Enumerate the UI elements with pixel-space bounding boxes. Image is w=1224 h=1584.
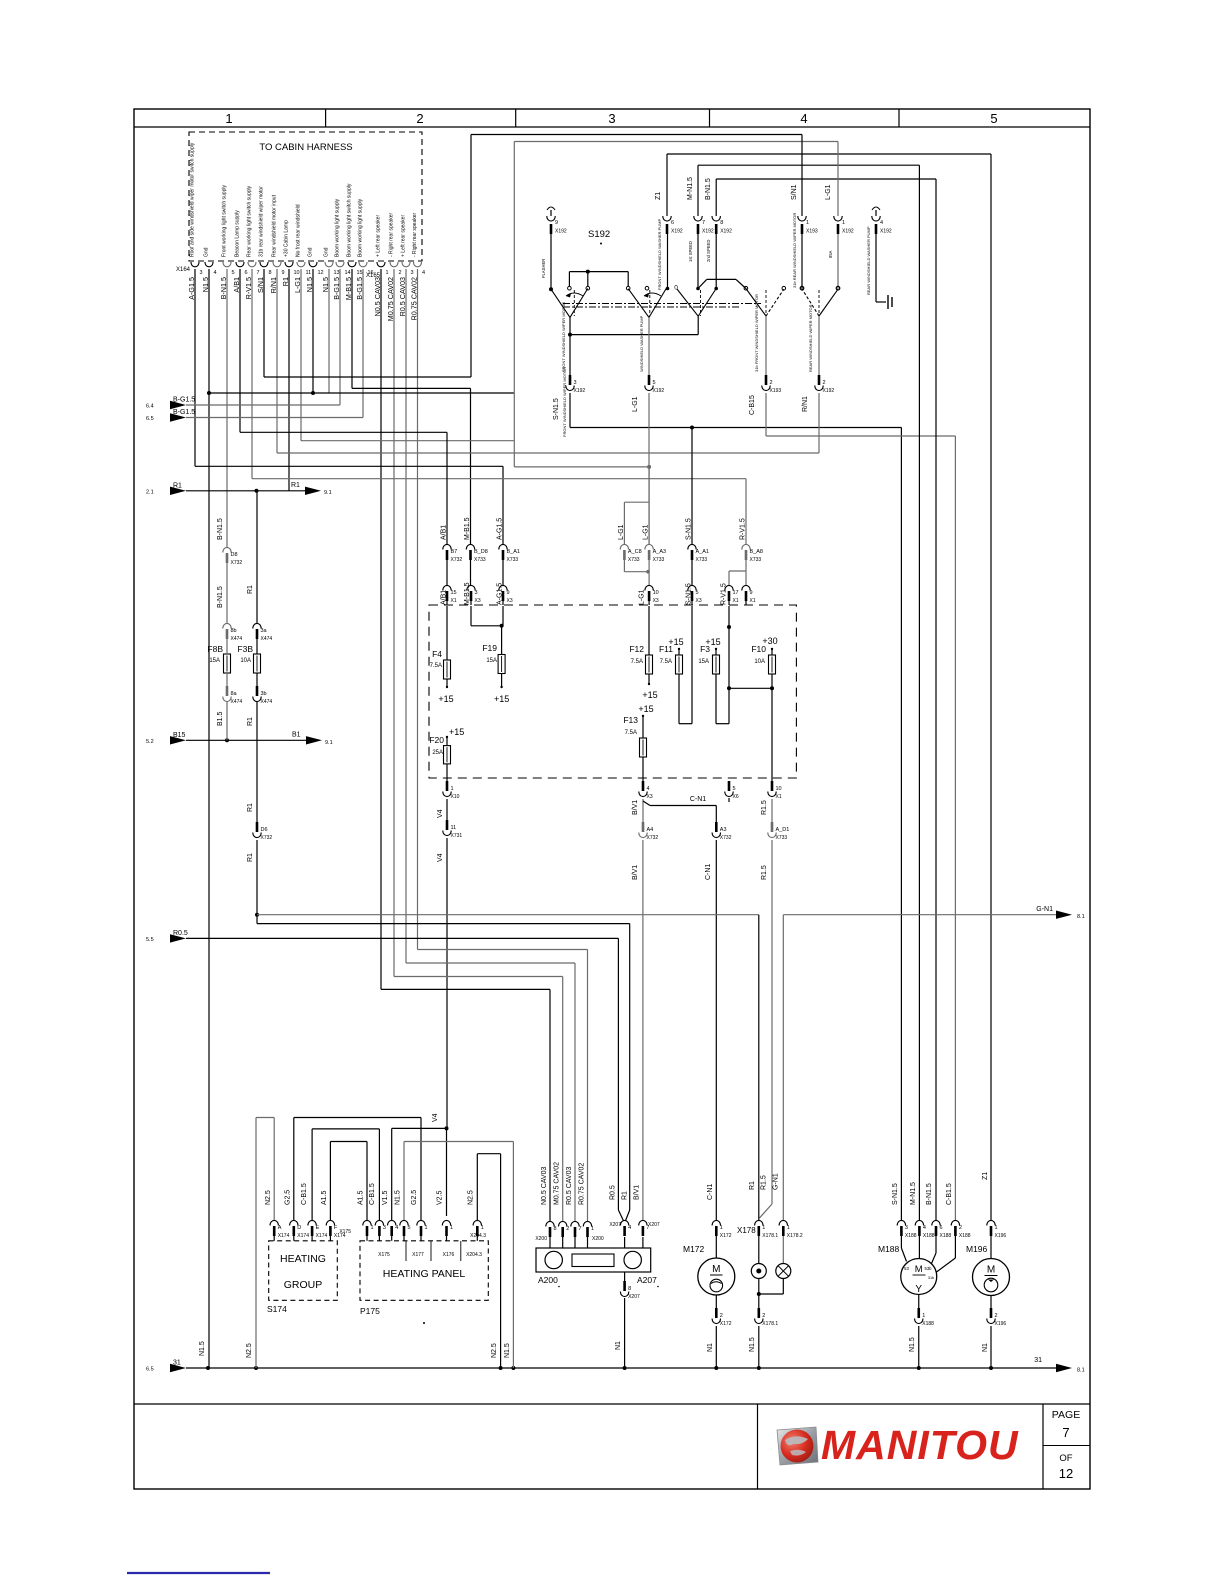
svg-text:X200: X200 bbox=[592, 1236, 604, 1242]
svg-text:X175: X175 bbox=[339, 1229, 351, 1235]
svg-text:1: 1 bbox=[450, 1225, 453, 1231]
svg-text:G-N1: G-N1 bbox=[1036, 906, 1053, 913]
svg-text:31b REAR WINDSHIELD WIPER MOTO: 31b REAR WINDSHIELD WIPER MOTOR bbox=[792, 213, 797, 288]
svg-text:M: M bbox=[987, 1265, 995, 1276]
svg-text:FLASHER: FLASHER bbox=[541, 259, 546, 278]
svg-text:B/V1: B/V1 bbox=[632, 865, 639, 880]
svg-text:31b: 31b bbox=[928, 1276, 934, 1280]
svg-text:5: 5 bbox=[696, 590, 699, 596]
svg-text:1: 1 bbox=[371, 1225, 374, 1231]
svg-text:B1: B1 bbox=[292, 732, 301, 739]
svg-text:X174: X174 bbox=[316, 1233, 328, 1239]
svg-text:X174: X174 bbox=[297, 1233, 309, 1239]
svg-text:2: 2 bbox=[959, 1225, 962, 1231]
svg-text:X192: X192 bbox=[842, 229, 854, 235]
svg-text:R0.5 CAV03: R0.5 CAV03 bbox=[566, 1167, 573, 1205]
svg-text:10A: 10A bbox=[240, 658, 251, 664]
svg-text:+15: +15 bbox=[642, 690, 657, 700]
svg-text:C-N1: C-N1 bbox=[707, 1184, 714, 1200]
svg-text:N1: N1 bbox=[615, 1341, 622, 1350]
svg-text:N1: N1 bbox=[707, 1343, 714, 1352]
svg-text:V4: V4 bbox=[437, 809, 444, 818]
svg-text:7: 7 bbox=[1062, 1425, 1069, 1440]
svg-text:A1.5: A1.5 bbox=[358, 1190, 365, 1205]
svg-text:4: 4 bbox=[800, 111, 807, 126]
svg-text:+ Left rear speaker: + Left rear speaker bbox=[401, 215, 407, 257]
svg-text:B-G1.5: B-G1.5 bbox=[173, 397, 195, 404]
svg-text:3b: 3b bbox=[261, 691, 267, 697]
svg-text:14: 14 bbox=[345, 270, 351, 276]
svg-text:A/B1: A/B1 bbox=[441, 525, 448, 540]
svg-text:1: 1 bbox=[225, 111, 232, 126]
svg-text:L-G1: L-G1 bbox=[639, 589, 646, 605]
svg-text:3: 3 bbox=[475, 590, 478, 596]
svg-text:X172: X172 bbox=[720, 1321, 732, 1327]
svg-text:8a: 8a bbox=[231, 691, 238, 697]
svg-text:Roof and side windshield wiper: Roof and side windshield wiper motor swi… bbox=[190, 142, 196, 257]
svg-text:A_D1: A_D1 bbox=[776, 827, 790, 833]
svg-text:15A: 15A bbox=[209, 658, 220, 664]
svg-text:N2.5: N2.5 bbox=[468, 1190, 475, 1205]
svg-text:2: 2 bbox=[995, 1313, 998, 1319]
svg-text:4: 4 bbox=[422, 270, 425, 276]
svg-text:X474: X474 bbox=[261, 699, 273, 705]
svg-text:3: 3 bbox=[200, 270, 203, 276]
svg-text:9: 9 bbox=[282, 270, 285, 276]
svg-text:B-G1.5: B-G1.5 bbox=[173, 409, 195, 416]
svg-text:Gnd: Gnd bbox=[324, 247, 330, 257]
svg-text:F12: F12 bbox=[629, 644, 644, 654]
svg-text:13: 13 bbox=[334, 270, 340, 276]
svg-text:R1: R1 bbox=[247, 853, 254, 862]
svg-text:B/V1: B/V1 bbox=[634, 1185, 641, 1200]
svg-text:S-N1.5: S-N1.5 bbox=[553, 398, 560, 420]
svg-text:R1: R1 bbox=[291, 482, 300, 489]
svg-text:R1: R1 bbox=[622, 1191, 629, 1200]
svg-text:B-N1.5: B-N1.5 bbox=[217, 586, 224, 608]
svg-text:X177: X177 bbox=[412, 1252, 424, 1258]
svg-text:X1: X1 bbox=[733, 598, 739, 604]
svg-text:X193: X193 bbox=[770, 388, 782, 394]
svg-text:Beacon Lamp supply: Beacon Lamp supply bbox=[235, 210, 241, 257]
svg-text:A_C8: A_C8 bbox=[628, 549, 642, 555]
svg-text:N1.5: N1.5 bbox=[749, 1337, 756, 1352]
svg-text:N2.5: N2.5 bbox=[491, 1343, 498, 1358]
svg-text:X172: X172 bbox=[720, 1233, 732, 1239]
svg-text:B_A8: B_A8 bbox=[750, 549, 763, 555]
svg-text:8.1: 8.1 bbox=[1077, 1368, 1085, 1374]
svg-text:X174: X174 bbox=[278, 1233, 290, 1239]
svg-text:R0.75 CAV02: R0.75 CAV02 bbox=[579, 1163, 586, 1205]
svg-text:X3: X3 bbox=[696, 598, 702, 604]
svg-text:Rear windshield motor input: Rear windshield motor input bbox=[272, 194, 278, 257]
svg-text:X733: X733 bbox=[474, 557, 486, 563]
svg-text:5: 5 bbox=[733, 786, 736, 792]
svg-text:R-V1.5: R-V1.5 bbox=[740, 518, 747, 540]
svg-text:M-N1.5: M-N1.5 bbox=[910, 1182, 917, 1205]
svg-text:A3: A3 bbox=[720, 827, 727, 833]
svg-text:X188: X188 bbox=[922, 1321, 934, 1327]
svg-text:X192: X192 bbox=[671, 229, 683, 235]
svg-text:X10: X10 bbox=[451, 794, 460, 800]
svg-text:N1.5: N1.5 bbox=[909, 1337, 916, 1352]
svg-text:R1.5: R1.5 bbox=[761, 800, 768, 815]
svg-text:6: 6 bbox=[671, 220, 674, 226]
svg-text:X178.1: X178.1 bbox=[762, 1233, 778, 1239]
svg-text:R1: R1 bbox=[749, 1181, 756, 1190]
svg-text:X3: X3 bbox=[507, 598, 513, 604]
svg-text:3: 3 bbox=[608, 111, 615, 126]
svg-text:R1: R1 bbox=[247, 803, 254, 812]
svg-text:TO CABIN HARNESS: TO CABIN HARNESS bbox=[259, 142, 352, 153]
svg-text:F10: F10 bbox=[751, 644, 766, 654]
svg-text:R1: R1 bbox=[247, 717, 254, 726]
svg-text:1: 1 bbox=[425, 1225, 428, 1231]
svg-text:X188: X188 bbox=[923, 1233, 935, 1239]
svg-text:A4: A4 bbox=[647, 827, 654, 833]
svg-text:X732: X732 bbox=[451, 557, 463, 563]
svg-text:X192: X192 bbox=[653, 388, 665, 394]
svg-text:B_A1: B_A1 bbox=[507, 549, 520, 555]
svg-text:31b rear windshield wiper moto: 31b rear windshield wiper motor bbox=[259, 186, 265, 257]
svg-text:REAR WINDSHIELD WIPER MOTOR: REAR WINDSHIELD WIPER MOTOR bbox=[808, 304, 813, 372]
svg-text:X164: X164 bbox=[176, 267, 191, 273]
svg-text:N1.5: N1.5 bbox=[395, 1190, 402, 1205]
svg-text:D6: D6 bbox=[261, 827, 268, 833]
svg-text:X178: X178 bbox=[737, 1226, 756, 1235]
svg-text:N2.5: N2.5 bbox=[246, 1343, 253, 1358]
svg-text:12: 12 bbox=[318, 270, 324, 276]
svg-text:X6: X6 bbox=[733, 794, 739, 800]
svg-text:X192: X192 bbox=[555, 229, 567, 235]
svg-text:X192: X192 bbox=[880, 229, 892, 235]
svg-text:5.2: 5.2 bbox=[146, 739, 154, 745]
svg-text:X175: X175 bbox=[378, 1252, 390, 1258]
svg-text:L-G1: L-G1 bbox=[632, 396, 639, 412]
svg-text:M172: M172 bbox=[683, 1244, 705, 1254]
svg-text:R0.5: R0.5 bbox=[610, 1185, 617, 1200]
svg-text:1: 1 bbox=[806, 220, 809, 226]
svg-text:1: 1 bbox=[787, 1225, 790, 1231]
svg-text:L-G1: L-G1 bbox=[618, 524, 625, 540]
svg-text:F3: F3 bbox=[700, 644, 710, 654]
svg-text:4: 4 bbox=[395, 1225, 398, 1231]
svg-text:5: 5 bbox=[653, 380, 656, 386]
svg-text:8: 8 bbox=[720, 220, 723, 226]
svg-text:N1: N1 bbox=[982, 1343, 989, 1352]
svg-text:N2.5: N2.5 bbox=[265, 1190, 272, 1205]
svg-text:FRONT WINDSHIELD WIPER MOTOR: FRONT WINDSHIELD WIPER MOTOR bbox=[561, 302, 566, 372]
svg-text:53b: 53b bbox=[925, 1266, 933, 1271]
svg-text:B1.5: B1.5 bbox=[217, 711, 224, 726]
svg-text:9: 9 bbox=[507, 590, 510, 596]
svg-text:M: M bbox=[915, 1264, 923, 1275]
svg-text:X207: X207 bbox=[609, 1222, 621, 1228]
svg-text:S192: S192 bbox=[588, 229, 610, 240]
svg-text:G2.5: G2.5 bbox=[411, 1190, 418, 1205]
svg-text:15: 15 bbox=[357, 270, 363, 276]
svg-text:X732: X732 bbox=[261, 835, 273, 841]
svg-text:8: 8 bbox=[554, 1226, 557, 1232]
svg-text:10: 10 bbox=[776, 786, 782, 792]
svg-text:+15: +15 bbox=[449, 727, 464, 737]
svg-text:M188: M188 bbox=[878, 1244, 900, 1254]
svg-text:X176: X176 bbox=[443, 1252, 455, 1258]
svg-text:1: 1 bbox=[995, 1225, 998, 1231]
svg-text:9.1: 9.1 bbox=[324, 490, 332, 496]
svg-text:8.1: 8.1 bbox=[1077, 914, 1085, 920]
svg-text:V4: V4 bbox=[432, 1113, 439, 1122]
svg-text:12: 12 bbox=[1059, 1466, 1073, 1481]
svg-text:X733: X733 bbox=[696, 557, 708, 563]
svg-text:M-B1.5: M-B1.5 bbox=[464, 517, 471, 540]
svg-text:5.5: 5.5 bbox=[146, 937, 154, 943]
svg-text:4: 4 bbox=[628, 1225, 631, 1231]
svg-text:15: 15 bbox=[451, 590, 457, 596]
svg-text:9.1: 9.1 bbox=[325, 740, 333, 746]
svg-text:Rear working light switch supp: Rear working light switch supply bbox=[247, 185, 253, 257]
svg-text:X193: X193 bbox=[806, 229, 818, 235]
svg-text:2: 2 bbox=[566, 1226, 569, 1232]
svg-text:+15: +15 bbox=[438, 694, 453, 704]
svg-text:2: 2 bbox=[720, 1313, 723, 1319]
svg-text:6.5: 6.5 bbox=[146, 416, 154, 422]
svg-text:11: 11 bbox=[451, 825, 457, 831]
svg-text:WINDSHIELD WASHER PUMP: WINDSHIELD WASHER PUMP bbox=[639, 315, 644, 372]
svg-text:Boom working light switch supp: Boom working light switch supply bbox=[347, 183, 353, 257]
svg-text:G-N1: G-N1 bbox=[773, 1173, 780, 1190]
svg-text:X3: X3 bbox=[653, 598, 659, 604]
svg-text:F11: F11 bbox=[659, 644, 673, 654]
svg-text:31: 31 bbox=[173, 1360, 181, 1367]
svg-text:7.5A: 7.5A bbox=[625, 730, 637, 736]
svg-text:X207: X207 bbox=[648, 1222, 660, 1228]
svg-text:11: 11 bbox=[306, 270, 312, 276]
svg-text:4: 4 bbox=[647, 786, 650, 792]
svg-text:X188: X188 bbox=[959, 1233, 971, 1239]
svg-text:X178.2: X178.2 bbox=[787, 1233, 803, 1239]
svg-text:7: 7 bbox=[257, 270, 260, 276]
svg-text:A-G1.5: A-G1.5 bbox=[497, 518, 504, 540]
svg-text:10A: 10A bbox=[754, 659, 765, 665]
svg-text:F3B: F3B bbox=[237, 644, 253, 654]
svg-text:S-N1.5: S-N1.5 bbox=[892, 1183, 899, 1205]
svg-text:A200: A200 bbox=[538, 1275, 558, 1285]
svg-text:X188: X188 bbox=[940, 1233, 952, 1239]
svg-text:7.5A: 7.5A bbox=[631, 659, 643, 665]
svg-text:X733: X733 bbox=[653, 557, 665, 563]
svg-text:3: 3 bbox=[574, 380, 577, 386]
svg-text:2.1: 2.1 bbox=[146, 489, 154, 495]
svg-text:M0.75 CAV02: M0.75 CAV02 bbox=[554, 1162, 561, 1205]
svg-text:8: 8 bbox=[269, 270, 272, 276]
svg-text:6.4: 6.4 bbox=[146, 404, 154, 410]
svg-text:Front working light switch sup: Front working light switch supply bbox=[222, 185, 228, 257]
svg-text:S-N1.5: S-N1.5 bbox=[686, 518, 693, 540]
svg-text:1: 1 bbox=[451, 786, 454, 792]
svg-text:9: 9 bbox=[750, 590, 753, 596]
svg-text:C-B1.5: C-B1.5 bbox=[946, 1183, 953, 1205]
svg-text:9: 9 bbox=[555, 220, 558, 226]
svg-text:2: 2 bbox=[823, 380, 826, 386]
svg-text:X474: X474 bbox=[231, 636, 243, 642]
svg-text:+ Left rear speaker: + Left rear speaker bbox=[376, 215, 382, 257]
svg-text:R1.5: R1.5 bbox=[761, 865, 768, 880]
svg-text:X196: X196 bbox=[995, 1321, 1007, 1327]
svg-text:M-N1.5: M-N1.5 bbox=[687, 177, 694, 200]
svg-text:8: 8 bbox=[628, 1286, 631, 1292]
svg-text:C-B15: C-B15 bbox=[749, 395, 756, 415]
svg-text:8b: 8b bbox=[231, 628, 237, 634]
svg-text:7: 7 bbox=[702, 220, 705, 226]
svg-text:Boom working light supply: Boom working light supply bbox=[335, 198, 341, 257]
svg-text:F13: F13 bbox=[623, 715, 638, 725]
svg-text:85A: 85A bbox=[828, 250, 833, 258]
svg-text:1: 1 bbox=[481, 1225, 484, 1231]
svg-text:A: A bbox=[278, 1225, 282, 1231]
svg-text:HEATING: HEATING bbox=[280, 1253, 326, 1265]
svg-text:+15: +15 bbox=[494, 694, 509, 704]
svg-text:F19: F19 bbox=[482, 643, 497, 653]
svg-text:1: 1 bbox=[922, 1313, 925, 1319]
svg-text:M196: M196 bbox=[966, 1244, 988, 1254]
svg-text:6.5: 6.5 bbox=[146, 1367, 154, 1373]
svg-text:HEATING PANEL: HEATING PANEL bbox=[383, 1268, 466, 1280]
svg-text:6: 6 bbox=[940, 1225, 943, 1231]
svg-text:X1: X1 bbox=[776, 794, 782, 800]
svg-text:Z1: Z1 bbox=[655, 192, 662, 200]
svg-text:N0.5 CAV03: N0.5 CAV03 bbox=[541, 1167, 548, 1205]
svg-text:B-N1.5: B-N1.5 bbox=[705, 178, 712, 200]
svg-text:FRONT WINDSHIELD WIPER MOTOR: FRONT WINDSHIELD WIPER MOTOR bbox=[562, 367, 567, 437]
svg-text:1: 1 bbox=[842, 220, 845, 226]
svg-text:A1.5: A1.5 bbox=[321, 1190, 328, 1205]
svg-text:7: 7 bbox=[579, 1226, 582, 1232]
svg-text:No frost rear windshield: No frost rear windshield bbox=[296, 204, 302, 257]
svg-text:D: D bbox=[297, 1225, 301, 1231]
svg-text:X3: X3 bbox=[647, 794, 653, 800]
svg-text:B15: B15 bbox=[173, 732, 186, 739]
svg-text:5: 5 bbox=[232, 270, 235, 276]
svg-text:2: 2 bbox=[416, 111, 423, 126]
svg-text:G2.5: G2.5 bbox=[285, 1190, 292, 1205]
svg-text:X733: X733 bbox=[507, 557, 519, 563]
svg-text:X3: X3 bbox=[475, 598, 481, 604]
svg-text:C-N1: C-N1 bbox=[705, 864, 712, 880]
svg-text:X192: X192 bbox=[720, 229, 732, 235]
svg-text:B-N1.5: B-N1.5 bbox=[926, 1183, 933, 1205]
svg-text:X474: X474 bbox=[231, 699, 243, 705]
svg-text:A207: A207 bbox=[637, 1275, 657, 1285]
svg-text:31b FRONT WINDSHIELD WIPER MOT: 31b FRONT WINDSHIELD WIPER MOTOR bbox=[754, 294, 759, 372]
svg-text:2: 2 bbox=[770, 380, 773, 386]
svg-text:V1.5: V1.5 bbox=[382, 1190, 389, 1205]
svg-text:L-G1: L-G1 bbox=[825, 184, 832, 200]
svg-text:R1.5: R1.5 bbox=[761, 1175, 768, 1190]
svg-text:2: 2 bbox=[399, 270, 402, 276]
svg-text:B/V1: B/V1 bbox=[632, 800, 639, 815]
svg-text:X192: X192 bbox=[574, 388, 586, 394]
svg-text:PAGE: PAGE bbox=[1052, 1409, 1080, 1421]
svg-text:F20: F20 bbox=[429, 735, 444, 745]
svg-text:C-N1: C-N1 bbox=[690, 796, 706, 803]
svg-text:Gnd: Gnd bbox=[308, 247, 314, 257]
svg-text:10: 10 bbox=[294, 270, 300, 276]
svg-text:X733: X733 bbox=[628, 557, 640, 563]
svg-text:C-B1.5: C-B1.5 bbox=[301, 1183, 308, 1205]
svg-text:X178.1: X178.1 bbox=[762, 1321, 778, 1327]
svg-text:R1: R1 bbox=[173, 482, 182, 489]
svg-text:R0.5: R0.5 bbox=[173, 930, 188, 937]
svg-text:V2.5: V2.5 bbox=[437, 1190, 444, 1205]
svg-text:2: 2 bbox=[762, 1313, 765, 1319]
svg-text:25A: 25A bbox=[432, 750, 443, 756]
svg-text:A_A3: A_A3 bbox=[653, 549, 666, 555]
svg-text:X474: X474 bbox=[261, 636, 273, 642]
svg-text:F4: F4 bbox=[432, 649, 442, 659]
svg-text:3a: 3a bbox=[261, 628, 268, 634]
svg-text:15A: 15A bbox=[698, 659, 709, 665]
svg-text:- Right rear speaker: - Right rear speaker bbox=[389, 212, 395, 257]
svg-text:V4: V4 bbox=[437, 853, 444, 862]
svg-text:P175: P175 bbox=[360, 1306, 380, 1316]
svg-text:1: 1 bbox=[386, 270, 389, 276]
svg-text:B-N1.5: B-N1.5 bbox=[217, 518, 224, 540]
svg-text:7.5A: 7.5A bbox=[660, 659, 672, 665]
svg-text:X192: X192 bbox=[702, 229, 714, 235]
svg-text:L-G1: L-G1 bbox=[643, 524, 650, 540]
svg-text:53: 53 bbox=[904, 1266, 909, 1271]
svg-text:X1: X1 bbox=[750, 598, 756, 604]
svg-text:REAR WINDSHIELD WASHER PUMP: REAR WINDSHIELD WASHER PUMP bbox=[866, 226, 871, 295]
svg-text:D8: D8 bbox=[231, 552, 238, 558]
svg-text:3: 3 bbox=[411, 270, 414, 276]
svg-text:17: 17 bbox=[733, 590, 739, 596]
svg-text:MANITOU: MANITOU bbox=[821, 1422, 1019, 1468]
svg-text:X207: X207 bbox=[628, 1294, 640, 1300]
svg-text:N1.5: N1.5 bbox=[199, 1341, 206, 1356]
svg-text:+15: +15 bbox=[638, 704, 653, 714]
svg-text:31: 31 bbox=[1034, 1357, 1042, 1364]
svg-text:Boom working light supply: Boom working light supply bbox=[358, 198, 364, 257]
svg-text:4: 4 bbox=[880, 220, 883, 226]
svg-text:16: 16 bbox=[368, 270, 374, 276]
svg-text:+30 Cabin Lamp: +30 Cabin Lamp bbox=[284, 220, 290, 257]
svg-text:S174: S174 bbox=[267, 1304, 287, 1314]
svg-text:X200: X200 bbox=[535, 1236, 547, 1242]
svg-text:S/N1: S/N1 bbox=[791, 184, 798, 200]
svg-text:X1: X1 bbox=[451, 598, 457, 604]
svg-text:X733: X733 bbox=[750, 557, 762, 563]
svg-text:X732: X732 bbox=[231, 560, 243, 566]
svg-text:7.5A: 7.5A bbox=[430, 663, 442, 669]
svg-text:B_D8: B_D8 bbox=[474, 549, 488, 555]
svg-text:1: 1 bbox=[762, 1225, 765, 1231]
svg-text:E: E bbox=[316, 1225, 320, 1231]
svg-text:4: 4 bbox=[214, 270, 217, 276]
svg-text:1: 1 bbox=[591, 1226, 594, 1232]
svg-text:X733: X733 bbox=[776, 835, 788, 841]
svg-text:6: 6 bbox=[245, 270, 248, 276]
svg-text:0: 0 bbox=[674, 285, 678, 292]
svg-text:Z1: Z1 bbox=[982, 1172, 989, 1180]
svg-text:M: M bbox=[712, 1264, 720, 1275]
svg-text:1st SPEED: 1st SPEED bbox=[688, 241, 693, 262]
svg-text:3: 3 bbox=[383, 1225, 386, 1231]
svg-text:GROUP: GROUP bbox=[284, 1279, 323, 1291]
svg-text:15A: 15A bbox=[486, 658, 497, 664]
svg-text:X731: X731 bbox=[451, 833, 463, 839]
